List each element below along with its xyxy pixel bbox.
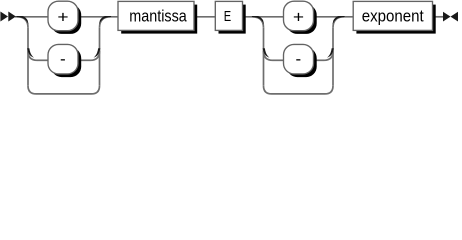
svg-text:E: E	[224, 8, 231, 25]
group 2 junction wedge minus merge	[327, 48, 334, 57]
terminal box - (group 1)	[48, 44, 78, 74]
group 2 junction wedge main merge	[332, 16, 344, 25]
shadow of box E	[219, 5, 246, 34]
svg-text:-: -	[60, 50, 66, 69]
shadow of terminal box + (group 1)	[51, 4, 81, 34]
group 2 arc minus line up into right vertical	[324, 51, 333, 60]
group 1 arc minus line up into right vertical	[91, 51, 100, 60]
shadow of terminal box - (group 1)	[51, 48, 81, 78]
svg-text:-: -	[295, 50, 301, 69]
terminal box + (group 1)	[48, 1, 78, 31]
terminal box - (group 2)	[284, 44, 314, 74]
group 1 arc into minus line	[28, 51, 37, 60]
group 1 minus line right	[78, 59, 91, 61]
group 1 junction wedge at branch	[16, 16, 28, 25]
group 2 junction wedge at branch	[252, 16, 264, 25]
group 1 left vertical	[27, 28, 29, 86]
end arrow left-pointing	[451, 12, 459, 22]
svg-text:+: +	[57, 8, 68, 27]
group 1 minus line left	[37, 59, 48, 61]
shadow of box exponent	[356, 5, 435, 34]
group 2 skip path bottom	[264, 86, 334, 94]
box exponent	[353, 1, 432, 30]
shadow of terminal box - (group 2)	[287, 48, 317, 78]
group 1 branch arc from main line down	[17, 17, 28, 28]
group 1 junction wedge minus branch	[27, 48, 34, 57]
main line exponent to end arrows	[433, 16, 445, 18]
group 1 merge arc up to main line	[100, 17, 111, 28]
group 2 merge arc up to main line	[333, 17, 344, 28]
main line +box1 to mantissa	[78, 16, 118, 18]
group 2 right vertical	[332, 28, 334, 86]
group 1 skip path bottom	[28, 86, 100, 94]
shadow of terminal box + (group 2)	[287, 4, 317, 34]
group 2 junction wedge minus branch	[263, 48, 270, 57]
group 2 arc into minus line	[264, 51, 273, 60]
start arrow 1	[0, 12, 8, 22]
svg-text:+: +	[293, 8, 304, 27]
main line mantissa to E	[194, 16, 215, 18]
group 1 junction wedge main merge	[99, 16, 111, 25]
group 2 minus line left	[273, 59, 284, 61]
shadow of box mantissa	[121, 5, 197, 34]
group 1 right vertical	[99, 28, 101, 86]
box E	[215, 1, 242, 30]
main line start to +box1	[15, 16, 48, 18]
main line +box2 to exponent	[314, 16, 354, 18]
svg-text:mantissa: mantissa	[129, 8, 187, 26]
start arrow 2	[8, 12, 16, 22]
end arrow right-pointing	[443, 12, 451, 22]
box mantissa	[118, 1, 194, 30]
group 2 left vertical	[263, 28, 265, 86]
terminal box + (group 2)	[284, 1, 314, 31]
main line E to +box2	[243, 16, 284, 18]
svg-text:exponent: exponent	[362, 8, 424, 26]
group 2 branch arc from main line down	[253, 17, 264, 28]
group 1 junction wedge minus merge	[94, 48, 101, 57]
group 2 minus line right	[314, 59, 325, 61]
